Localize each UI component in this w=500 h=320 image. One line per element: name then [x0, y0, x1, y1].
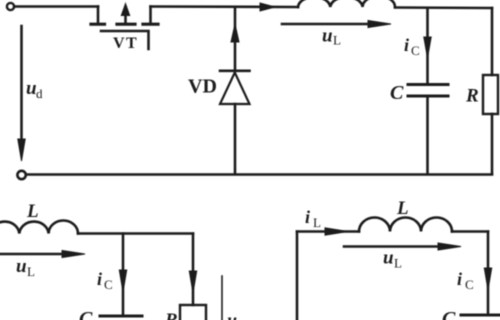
- wire top bottom-right: [297, 230, 359, 233]
- wire top-left segment: [14, 5, 98, 8]
- iL arrowhead bottom-right: [325, 228, 348, 235]
- iC arrowhead (down): [424, 37, 431, 58]
- svg-text:C: C: [79, 308, 93, 320]
- svg-text:d: d: [36, 86, 43, 101]
- wire left vertical bottom-right: [296, 232, 299, 320]
- svg-text:C: C: [465, 277, 474, 292]
- svg-text:C: C: [104, 277, 113, 292]
- capacitor C: [408, 85, 448, 175]
- wire top right segment: [395, 6, 492, 9]
- measurement line bottom-left: [221, 276, 223, 320]
- wire bottom-left top: [78, 232, 193, 235]
- svg-text:i: i: [305, 207, 310, 227]
- svg-text:u: u: [227, 310, 237, 320]
- uL arrow bottom-right: [344, 245, 440, 248]
- svg-text:C: C: [411, 43, 420, 58]
- diode VD: [220, 71, 250, 174]
- ud source arrow: [20, 26, 23, 142]
- resistor R branch wire: [491, 8, 494, 75]
- svg-text:u: u: [322, 26, 333, 47]
- svg-text:u: u: [26, 78, 37, 99]
- svg-text:VT: VT: [113, 35, 138, 52]
- diode current arrowhead (up): [231, 24, 239, 42]
- resistor R box bottom-left (clipped): [180, 305, 206, 320]
- svg-text:R: R: [465, 86, 479, 107]
- terminal bottom-left: [17, 171, 25, 179]
- diode VD branch vertical wire: [234, 7, 237, 70]
- svg-text:L: L: [26, 201, 39, 222]
- terminal top-left: [7, 3, 14, 10]
- iC branch wire bottom-left: [122, 234, 125, 315]
- svg-text:R: R: [164, 310, 178, 320]
- wire top middle segment: [151, 5, 299, 8]
- capacitor branch wire upper: [426, 8, 429, 83]
- svg-text:i: i: [457, 269, 462, 289]
- svg-text:L: L: [27, 264, 35, 279]
- capacitor C bottom-right (clipped): [461, 314, 500, 317]
- resistor R box: [483, 75, 498, 114]
- svg-text:u: u: [383, 248, 394, 269]
- svg-text:i: i: [97, 269, 102, 289]
- svg-text:L: L: [313, 215, 321, 230]
- wire top-right bottom-right: [452, 230, 488, 233]
- bottom wire: [26, 173, 492, 176]
- svg-text:i: i: [404, 35, 409, 55]
- uL arrow bottom-left: [0, 253, 64, 256]
- iC branch wire bottom-right: [487, 232, 490, 315]
- svg-text:L: L: [394, 256, 402, 271]
- svg-text:C: C: [390, 82, 404, 104]
- svg-text:u: u: [16, 256, 27, 277]
- inductor L bottom-left (clipped at left): [0, 221, 78, 234]
- svg-text:VD: VD: [188, 76, 217, 98]
- capacitor C bottom-left (clipped): [100, 315, 142, 318]
- R branch wire bottom-left: [192, 234, 195, 306]
- inductor L top: [298, 0, 395, 7]
- svg-text:L: L: [333, 33, 341, 48]
- svg-text:C: C: [442, 308, 456, 320]
- inductor L bottom-right: [359, 218, 452, 232]
- current arrowhead on top wire: [260, 3, 275, 11]
- uL arrow top: [282, 23, 372, 26]
- transistor Q1 VT (power MOSFET): [91, 4, 158, 50]
- svg-text:L: L: [396, 198, 409, 219]
